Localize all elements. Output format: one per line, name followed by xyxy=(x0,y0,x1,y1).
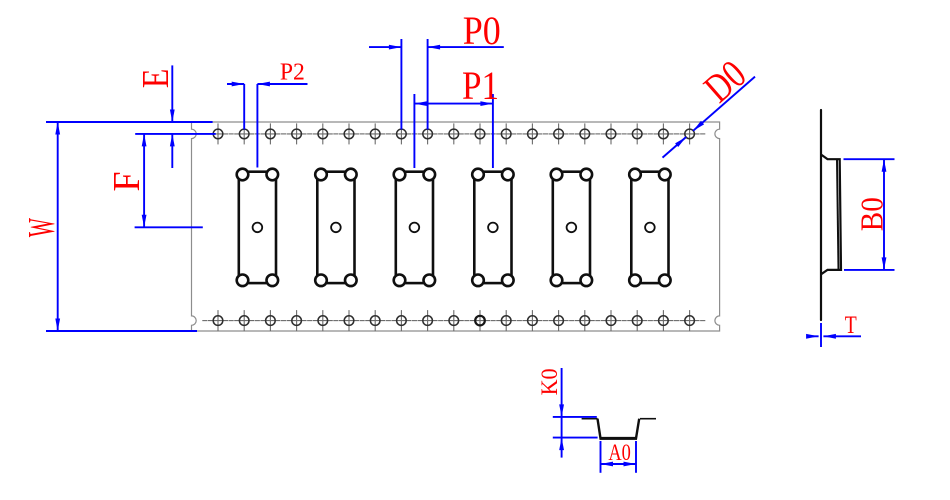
svg-text:P0: P0 xyxy=(463,8,501,53)
bottom sprocket holes D0 circles xyxy=(213,316,223,326)
top sprocket row centerlines/crosshairs xyxy=(208,133,228,135)
dimension P0 (sprocket pitch) lines+arrows xyxy=(400,39,402,130)
side view tape film xyxy=(820,110,822,320)
dimension F (sprocket to pocket centre) lines+arrows xyxy=(135,226,203,228)
svg-text:E: E xyxy=(135,69,177,89)
pocket A2 (component cavity) xyxy=(317,172,354,283)
bottom sprocket row centerlines/crosshairs xyxy=(208,320,228,322)
pocket A5 (component cavity) xyxy=(553,172,590,283)
svg-text:B0: B0 xyxy=(855,197,890,231)
section view tape surface xyxy=(582,418,598,420)
top sprocket holes D0 circles xyxy=(213,129,223,139)
dimension W (tape width) lines+arrows xyxy=(46,121,213,123)
svg-text:W: W xyxy=(21,218,63,237)
svg-text:T: T xyxy=(845,312,857,339)
pocket A6 (component cavity) xyxy=(631,172,668,283)
dimension A0 lines+arrows xyxy=(600,441,602,473)
dimension B0 lines+arrows xyxy=(844,158,895,160)
pocket A3 (component cavity) xyxy=(396,172,433,283)
pocket A1 (component cavity) xyxy=(239,172,276,283)
dimension K0 lines+arrows xyxy=(553,416,597,418)
dimension P2 lines+arrows xyxy=(243,84,245,130)
svg-text:A0: A0 xyxy=(608,440,631,465)
side view pocket bulge profile xyxy=(821,155,841,275)
tape outline (top view) with edge notches xyxy=(192,122,720,331)
dimension P1 (pocket pitch) lines+arrows xyxy=(413,94,415,168)
svg-text:K0: K0 xyxy=(537,368,563,395)
pocket A4 (component cavity) xyxy=(474,172,511,283)
svg-text:P1: P1 xyxy=(462,63,499,108)
dimension D0 (sprocket hole dia) leader arrows xyxy=(663,137,687,158)
dimension T (tape thickness) lines+arrows xyxy=(820,323,822,347)
svg-text:F: F xyxy=(106,172,148,192)
svg-text:P2: P2 xyxy=(280,59,305,86)
dimension E (edge to sprocket centre) lines+arrows xyxy=(135,133,216,135)
section view pocket cavity (trapezoid) xyxy=(598,419,640,439)
